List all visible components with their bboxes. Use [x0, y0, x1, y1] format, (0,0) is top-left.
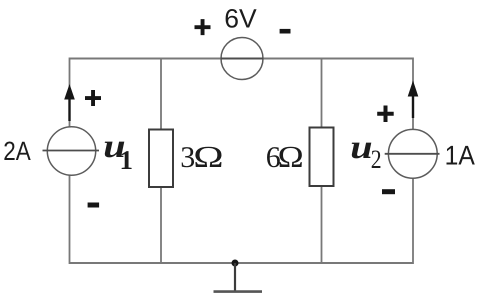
svg-text:1: 1: [120, 145, 134, 175]
svg-text:2A: 2A: [3, 136, 31, 166]
svg-text:1A: 1A: [445, 140, 475, 170]
wire top: [69, 58, 414, 60]
wire left: [69, 58, 71, 265]
resistor R2 6ohm: [310, 128, 334, 187]
arrow u1 reference (up): [64, 84, 75, 121]
arrow u2 reference (up): [408, 81, 419, 119]
wire branch R1: [160, 59, 162, 264]
plus sign 6V: [195, 19, 211, 35]
label u1: [103, 128, 133, 175]
minus sign 6V: [280, 29, 291, 34]
plus sign u1: [85, 90, 101, 106]
current source I1 2A: [43, 127, 100, 175]
voltage source 6V: [221, 38, 263, 80]
svg-text:Ω: Ω: [278, 140, 304, 174]
ground: [214, 263, 263, 292]
svg-text:u: u: [350, 129, 372, 166]
minus sign u2: [382, 189, 395, 194]
plus sign u2: [377, 106, 394, 123]
svg-text:Ω: Ω: [193, 140, 223, 174]
label u2: [350, 129, 381, 174]
current source I2 1A: [385, 129, 440, 178]
svg-text:6V: 6V: [224, 4, 257, 34]
resistor R1 3ohm: [149, 130, 173, 188]
wire right: [412, 58, 414, 265]
wire branch R2: [321, 59, 323, 264]
wire bottom: [69, 262, 414, 264]
node junction dot: [232, 260, 239, 267]
minus sign u1: [88, 203, 100, 208]
svg-text:2: 2: [371, 144, 382, 174]
